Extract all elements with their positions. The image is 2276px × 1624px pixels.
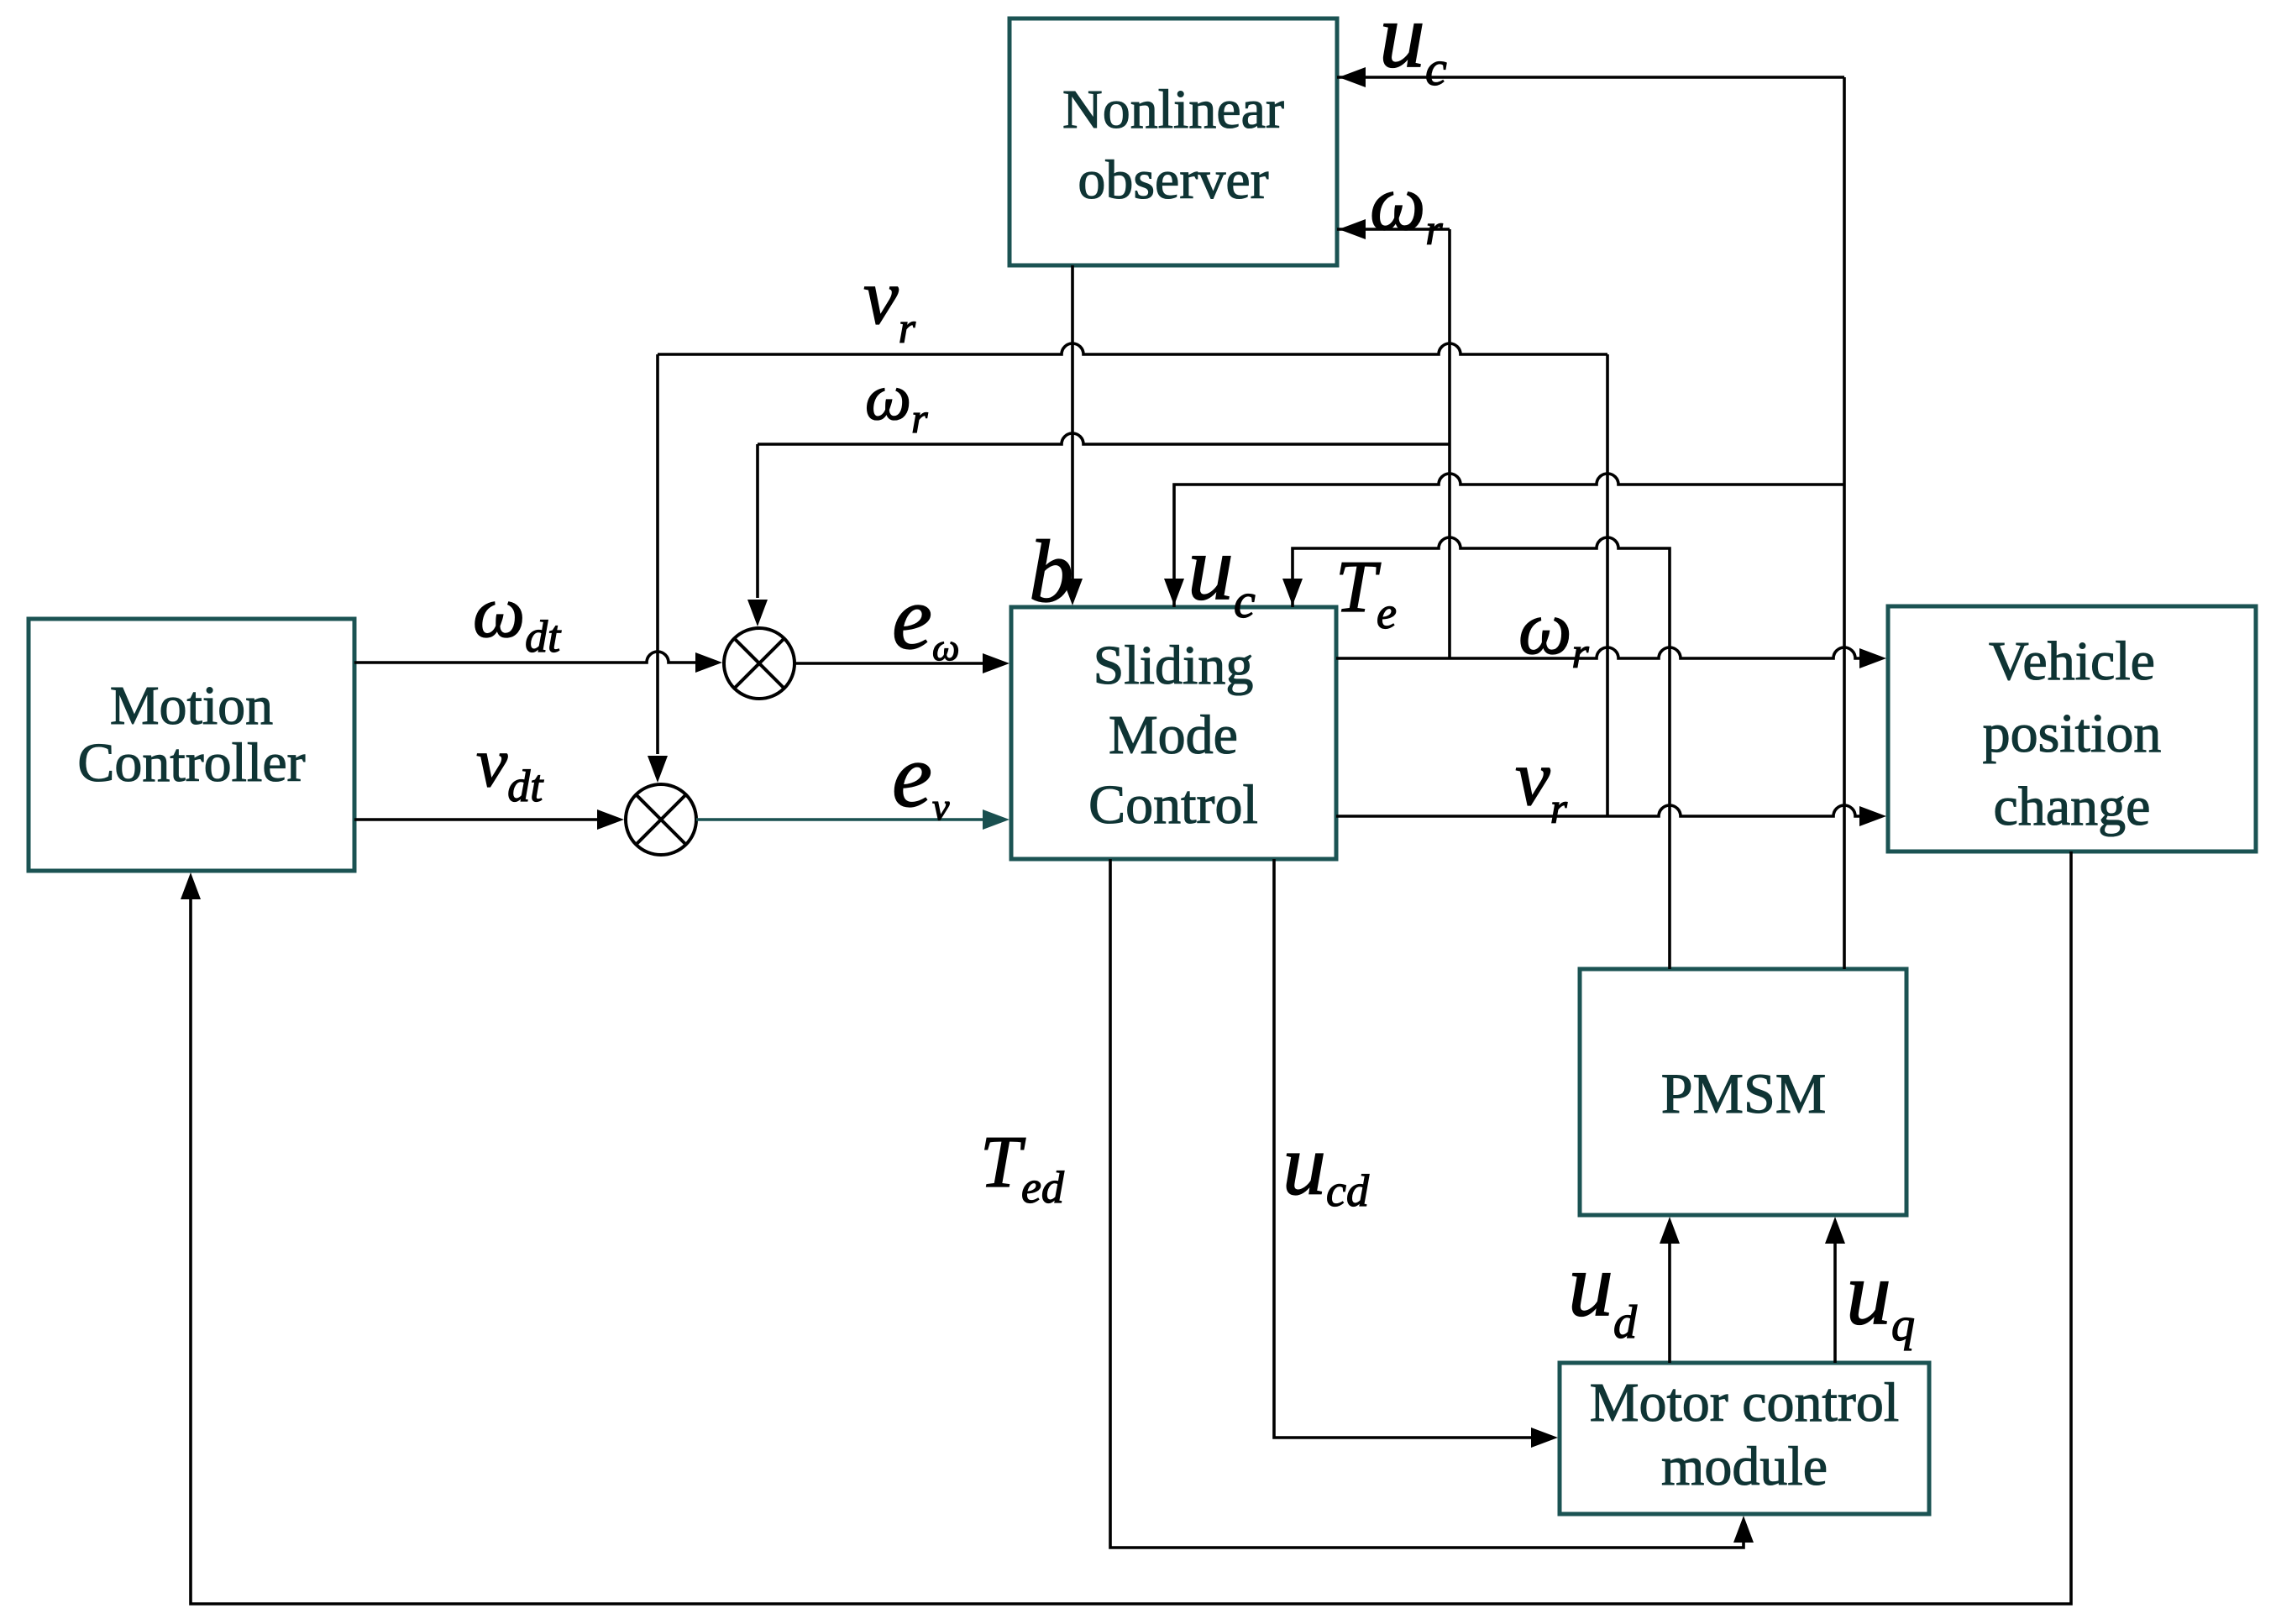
wire v_dt from Motion Controller to S2 [354,809,624,830]
svg-text:Vehicle: Vehicle [1989,631,2155,692]
wire v_r bus right vertical [1606,354,1609,816]
wire u_q from Motor control module to PMSM [1825,1217,1845,1363]
svg-text:ωr: ωr [1518,587,1590,678]
svg-text:ωdt: ωdt [473,572,562,662]
wire v_r bus drop to S2 [648,354,668,783]
svg-text:ωr: ωr [865,360,928,442]
wire omega_r vertical [1448,229,1451,658]
svg-text:vdt: vdt [476,724,544,811]
svg-text:Sliding: Sliding [1093,635,1254,696]
svg-text:b: b [1029,522,1073,621]
wire u_c branch into SMC top [1174,474,1844,607]
wire u_c vertical from PMSM top [1843,77,1846,969]
wire v_r out to Vehicle position change [1336,805,1886,826]
svg-text:eω: eω [892,568,959,668]
block U3 Sliding Mode Control [1011,607,1336,859]
arrow u_c into SMC top [1164,579,1184,605]
wire b from observer to SMC [1062,265,1083,605]
wire e_v from S2 to SMC (teal) [696,809,1010,830]
wire T_e from PMSM to SMC [1282,537,1670,969]
svg-text:change: change [1994,776,2151,837]
wire u_cd from SMC bottom to Motor control module left [1274,859,1558,1448]
svg-text:uq: uq [1846,1244,1915,1351]
wire omega_r out to Vehicle position change [1336,647,1886,668]
block U2 Motion Controller [29,619,354,871]
wire omega_r bus drop to S1 [747,444,768,626]
svg-text:Controller: Controller [77,732,305,794]
svg-text:PMSM: PMSM [1661,1061,1827,1125]
svg-text:uc: uc [1379,0,1447,96]
wire omega_dt from Motion Controller to S1 [354,652,722,673]
wire e_omega from S1 to SMC [795,653,1010,673]
svg-text:vr: vr [863,254,916,353]
summing junction S1 [724,628,795,699]
svg-text:ucd: ucd [1282,1117,1370,1216]
summing junction S2 [626,784,696,855]
block U6 Motor control module [1560,1363,1929,1514]
wire v_r bus horizontal [658,343,1607,354]
wire feedback from Vehicle position change to Motion Controller [181,851,2071,1604]
wire omega_r into observer [1337,219,1450,239]
block U5 PMSM [1580,969,1906,1215]
svg-text:Mode: Mode [1109,705,1238,766]
svg-text:Nonlinear: Nonlinear [1062,79,1284,140]
wire u_c top horizontal into observer [1337,67,1844,87]
svg-text:uc: uc [1188,516,1256,628]
wire u_d from Motor control module to PMSM [1660,1217,1680,1363]
svg-text:Motor control: Motor control [1590,1372,1899,1433]
svg-text:module: module [1661,1436,1828,1497]
svg-text:Ted: Ted [980,1122,1065,1213]
svg-text:ud: ud [1568,1235,1638,1349]
svg-text:ev: ev [892,726,950,828]
wire omega_r bus horizontal [758,433,1450,444]
svg-text:ωr: ωr [1370,160,1443,254]
block U4 Vehicle position change [1888,606,2256,851]
wire T_ed from SMC bottom to Motor control module bottom [1110,859,1754,1548]
svg-text:Motion: Motion [110,675,273,736]
svg-text:vr: vr [1515,735,1568,833]
svg-text:Te: Te [1335,547,1397,638]
block U1 Nonlinear observer [1010,18,1337,265]
svg-text:observer: observer [1078,149,1268,211]
svg-text:Control: Control [1088,774,1258,836]
svg-text:position: position [1983,703,2162,764]
